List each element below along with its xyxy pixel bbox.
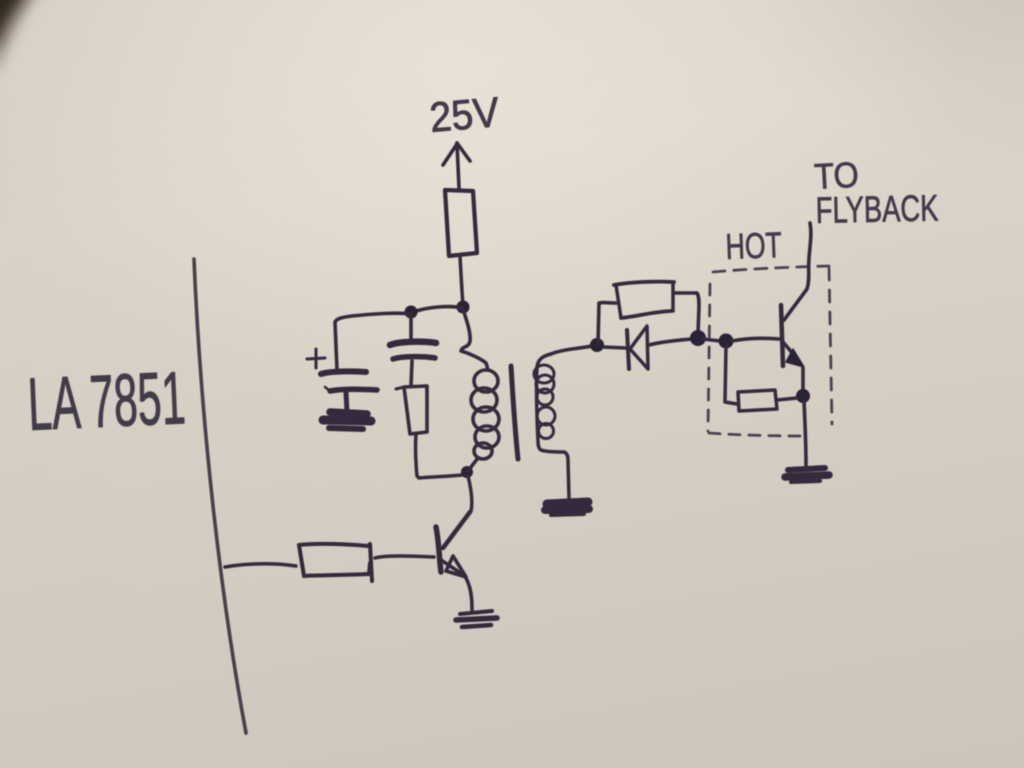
25V supply arrow bbox=[457, 143, 459, 188]
svg-text:HOT: HOT bbox=[725, 224, 783, 267]
wire T1 secondary top to node D bbox=[551, 346, 592, 354]
wire Q2 emitter to node G bbox=[801, 368, 805, 391]
LA7851 IC boundary line bbox=[194, 259, 246, 733]
resistor R2 bbox=[396, 387, 404, 389]
dashed box around Q2 bbox=[713, 266, 829, 272]
label FLYBACK bbox=[815, 187, 939, 230]
resistor R3 bbox=[614, 282, 674, 285]
transistor Q1 base bar bbox=[436, 527, 441, 572]
node E junction dot bbox=[690, 330, 706, 346]
wire R1 bottom to node A bbox=[460, 256, 463, 306]
wire node F down to resistor R5 bbox=[725, 346, 737, 404]
resistor R4 bbox=[299, 544, 372, 581]
node D junction dot bbox=[590, 338, 604, 352]
dark photo corner (background beyond paper) bbox=[0, 0, 28, 50]
wire R4 to Q1 base bbox=[375, 556, 434, 558]
wire node D to diode D1 bbox=[603, 347, 626, 348]
node G junction dot bbox=[796, 389, 810, 403]
transistor Q2 collector bbox=[784, 223, 811, 320]
wire node A to transformer T1 primary top bbox=[461, 309, 488, 370]
capacitor C1 (electrolytic) bbox=[321, 371, 366, 374]
transformer T1 core bbox=[511, 366, 518, 459]
diode D1 bbox=[627, 330, 629, 369]
transformer T1 secondary winding bbox=[537, 354, 569, 498]
node C junction dot bbox=[461, 466, 473, 478]
wire Q1 emitter to ground bbox=[466, 578, 472, 610]
node F junction dot bbox=[719, 334, 734, 349]
wire node G down to ground bbox=[804, 401, 806, 465]
svg-text:FLYBACK: FLYBACK bbox=[815, 187, 939, 230]
label LA 7851 bbox=[26, 356, 187, 446]
resistor R5 bbox=[738, 390, 777, 411]
label HOT bbox=[725, 224, 783, 267]
svg-text:25V: 25V bbox=[428, 88, 501, 142]
ground for T1 secondary bbox=[547, 502, 588, 504]
transistor Q1 emitter with arrow bbox=[441, 560, 462, 574]
transistor Q2 base bar bbox=[781, 305, 783, 366]
node A junction dot bbox=[457, 301, 470, 314]
wire LA7851 to resistor R4 bbox=[225, 564, 296, 567]
wire R5 to node G bbox=[777, 398, 797, 400]
wire D1 anode to node E bbox=[649, 339, 692, 345]
transformer T1 primary winding bbox=[474, 370, 498, 392]
wire R2 bottom to node C bbox=[416, 434, 462, 478]
wire node C to Q1 collector bbox=[468, 476, 472, 511]
capacitor C1 plus sign bbox=[307, 349, 325, 368]
svg-text:LA 7851: LA 7851 bbox=[26, 356, 187, 446]
wire node F to Q2 base bbox=[732, 338, 779, 341]
capacitor C2 bbox=[390, 342, 436, 345]
wire node A to node B bbox=[411, 307, 462, 313]
ground for Q1 emitter bbox=[460, 611, 492, 614]
wire C2 to resistor R2 bbox=[411, 361, 412, 386]
label TO bbox=[813, 155, 859, 197]
ground for C1 bbox=[330, 412, 367, 414]
transistor Q1 collector stroke bbox=[443, 512, 470, 548]
label 25V bbox=[428, 88, 501, 142]
wire R3 right to node E bbox=[674, 293, 699, 334]
wire node E to node F bbox=[703, 339, 720, 341]
ground for Q2 emitter bbox=[788, 468, 825, 470]
resistor R1 bbox=[445, 190, 477, 256]
wire node D up to resistor R3 bbox=[598, 303, 616, 344]
transistor Q2 emitter with arrow bbox=[783, 342, 799, 361]
node B junction dot bbox=[405, 306, 418, 319]
wire node B down to capacitor C2 bbox=[409, 314, 413, 340]
wire node B to capacitor C1 bbox=[335, 313, 411, 370]
